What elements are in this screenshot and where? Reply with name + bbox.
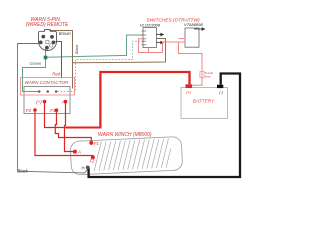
svg-text:V70A8898: V70A8898 bbox=[184, 22, 203, 27]
svg-text:(-): (-) bbox=[219, 90, 223, 94]
switch2 arrow top right bbox=[194, 28, 205, 30]
svg-text:Black: Black bbox=[18, 169, 29, 174]
switch box V70A8898 bbox=[185, 28, 199, 47]
svg-text:(+): (+) bbox=[186, 90, 191, 94]
wire black remote ground bbox=[18, 44, 88, 173]
node motor F1 bbox=[89, 141, 93, 145]
wire red fuse feed bbox=[179, 42, 203, 72]
wire red contactor F1 to motor F1 bbox=[55, 110, 91, 142]
svg-text:WARN WINCH (M8000): WARN WINCH (M8000) bbox=[98, 132, 152, 138]
wire red contactor (+) to battery + bbox=[45, 102, 101, 128]
svg-text:fuse: fuse bbox=[205, 75, 211, 79]
node contactor F1 bbox=[55, 108, 59, 112]
node contactor small terminals bbox=[38, 90, 41, 93]
battery terminal minus bbox=[217, 85, 223, 88]
wire green into contactor bbox=[23, 91, 39, 93]
contactor terminal box bbox=[24, 87, 70, 114]
svg-text:Green: Green bbox=[30, 61, 42, 66]
node motor H ground bbox=[86, 166, 90, 170]
wire red contactor A to motor A bbox=[65, 102, 75, 152]
svg-text:F2: F2 bbox=[26, 108, 32, 113]
node motor F2 bbox=[91, 155, 95, 159]
pin remote open bbox=[46, 40, 49, 43]
node contactor A bbox=[64, 100, 68, 104]
battery box bbox=[181, 88, 228, 119]
wire red switch loop bbox=[139, 39, 179, 53]
wire black battery negative cable bbox=[89, 74, 240, 178]
switch box arrows right bbox=[156, 33, 163, 43]
wire brown remote to switches bbox=[50, 31, 166, 63]
svg-text:Red: Red bbox=[52, 71, 60, 76]
connector remote 5-pin bbox=[39, 30, 57, 51]
wire green branch to contactor bbox=[23, 58, 46, 92]
wire red switch bottom pin bbox=[148, 48, 150, 53]
node contactor F2 bbox=[33, 108, 37, 112]
svg-text:WARN CONTACTOR: WARN CONTACTOR bbox=[24, 80, 69, 85]
svg-text:(WIRED) REMOTE: (WIRED) REMOTE bbox=[26, 22, 69, 28]
wire red remote to contactor bbox=[56, 42, 62, 79]
wire dashed contactor to switch bbox=[58, 41, 144, 91]
svg-text:A: A bbox=[77, 150, 81, 155]
svg-text:VLO2/3008: VLO2/3008 bbox=[140, 22, 161, 27]
wire red to switch2 pins bbox=[179, 38, 186, 40]
wire red thick battery positive cable bbox=[100, 72, 189, 128]
switch box VLO2/3008 bbox=[143, 28, 156, 48]
contactor label box bbox=[21, 78, 75, 96]
battery terminal plus bbox=[186, 84, 193, 88]
node green junction bbox=[44, 56, 48, 60]
pin remote filled bbox=[41, 35, 45, 39]
svg-text:F1: F1 bbox=[94, 141, 99, 146]
switch box pins left bbox=[142, 31, 147, 45]
hatch rope on drum bbox=[93, 138, 172, 170]
motor WARN WINCH housing bbox=[70, 136, 183, 175]
WARN 5-PIN (WIRED) REMOTE title bbox=[26, 17, 69, 28]
wire dashed out of contactor bbox=[58, 91, 76, 93]
svg-text:Black: Black bbox=[75, 44, 79, 54]
node contactor (+) bbox=[43, 100, 47, 104]
wire green remote to switch VLO2/3008 bbox=[46, 35, 144, 57]
svg-text:F2: F2 bbox=[90, 159, 96, 164]
fuse 5 amp bbox=[200, 72, 204, 78]
svg-text:BATTERY: BATTERY bbox=[193, 99, 215, 105]
wire red fuse to battery bbox=[192, 78, 202, 86]
node motor A bbox=[73, 150, 77, 154]
wire brown stub into contactor bbox=[72, 63, 74, 89]
wire red contactor F2 to motor F2 bbox=[35, 110, 93, 157]
svg-text:(+): (+) bbox=[36, 99, 42, 104]
svg-text:Brown: Brown bbox=[59, 31, 72, 36]
svg-text:H: H bbox=[82, 166, 85, 171]
